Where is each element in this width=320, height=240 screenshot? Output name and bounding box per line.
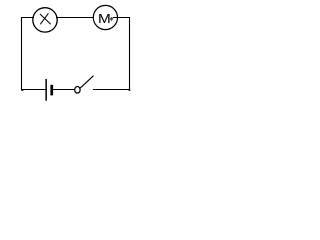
wire: arrow shaft, top-right corner, right side, bottom run to switch contact — [93, 18, 130, 90]
lamp L1 cross stroke 1 — [40, 14, 51, 24]
lamp L1 (circle) — [33, 8, 57, 32]
battery B1 negative plate (short thick) — [50, 85, 53, 96]
bottom-left corner joint stub — [21, 90, 23, 91]
background — [0, 0, 157, 104]
motor arrow head (small gray solid arrowhead pointing left) — [110, 17, 114, 21]
battery B1 positive plate (long thin) — [45, 79, 47, 101]
switch S1 pivot (small open circle) — [75, 87, 80, 94]
wire: top middle segment between lamp and motor — [56, 17, 94, 19]
lamp L1 cross stroke 2 — [40, 13, 48, 24]
wire: top-left corner, left side, bottom run to battery positive plate — [22, 18, 46, 90]
wire: battery to switch pivot — [53, 89, 75, 91]
bottom-right corner joint stub — [129, 90, 131, 91]
switch S1 lever (open) — [80, 76, 93, 88]
svg-text:M: M — [98, 12, 111, 27]
motor M1 label "M" — [98, 12, 111, 27]
motor M1 (circle) — [93, 5, 117, 29]
